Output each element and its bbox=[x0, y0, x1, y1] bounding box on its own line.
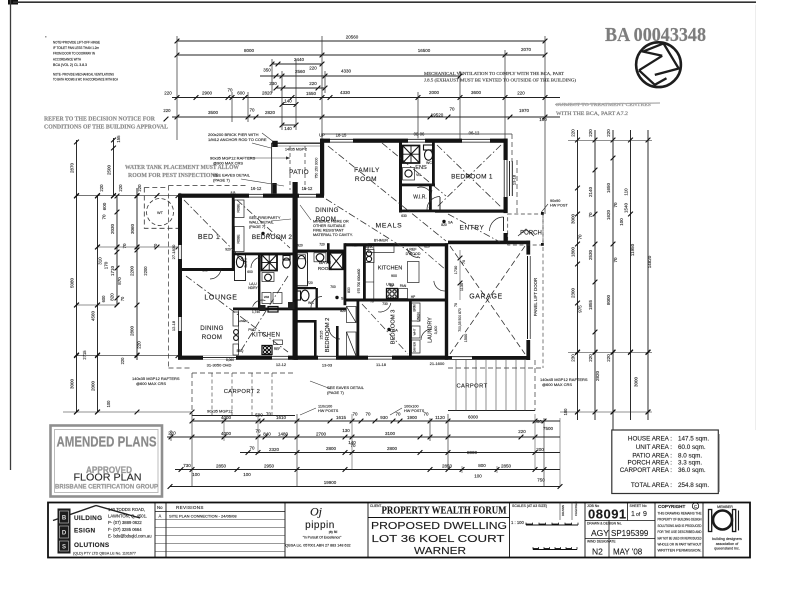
svg-text:2900: 2900 bbox=[202, 91, 213, 96]
dim top row 8000/16500/2070 bbox=[175, 47, 548, 57]
svg-text:1550: 1550 bbox=[306, 91, 317, 96]
svg-text:(QLD) PTY LTD QBSA Lic No.: (QLD) PTY LTD QBSA Lic No. 1101677 bbox=[73, 552, 136, 556]
svg-text:E- bds@bdsqld.com.au: E- bds@bdsqld.com.au bbox=[108, 533, 152, 538]
svg-text:1650: 1650 bbox=[606, 182, 611, 193]
svg-text:DINING: DINING bbox=[200, 325, 223, 332]
dim right 14820 bbox=[646, 130, 652, 420]
svg-text:(PAGE 7): (PAGE 7) bbox=[249, 224, 266, 229]
svg-text:920: 920 bbox=[225, 248, 231, 252]
wall wc east bbox=[316, 288, 318, 310]
scan artifact top edge line bbox=[13, 1, 756, 3]
svg-text:2820: 2820 bbox=[595, 370, 600, 381]
svg-text:of: of bbox=[636, 512, 641, 518]
wall bath top bbox=[294, 250, 346, 253]
unit robe boxes bbox=[235, 200, 245, 218]
svg-text:14820: 14820 bbox=[647, 255, 652, 268]
svg-text:SINK: SINK bbox=[365, 245, 374, 249]
carport right outline bbox=[448, 410, 535, 412]
svg-text:LOT 36 KOEL COURT: LOT 36 KOEL COURT bbox=[372, 534, 505, 545]
svg-text:3000: 3000 bbox=[571, 213, 576, 224]
note refer to decision notice bbox=[44, 117, 168, 131]
svg-text:MEALS: MEALS bbox=[375, 223, 402, 230]
svg-text:840: 840 bbox=[263, 432, 271, 437]
svg-text:2800: 2800 bbox=[326, 446, 337, 451]
svg-text:2200: 2200 bbox=[143, 266, 148, 276]
svg-text:08091: 08091 bbox=[588, 507, 627, 522]
svg-text:220: 220 bbox=[606, 129, 611, 137]
svg-text:SA: SA bbox=[341, 297, 346, 301]
dim left long 2870/5080 bbox=[70, 140, 79, 415]
svg-text:SA: SA bbox=[448, 221, 453, 225]
svg-text:PATIO: PATIO bbox=[289, 169, 309, 176]
svg-text:3100: 3100 bbox=[385, 431, 396, 436]
svg-text:ROOM: ROOM bbox=[355, 176, 377, 183]
svg-text:70: 70 bbox=[613, 202, 618, 208]
svg-text:254.8 sqm.: 254.8 sqm. bbox=[678, 482, 709, 489]
svg-text:CLIENT: CLIENT bbox=[370, 504, 381, 508]
svg-text:3600: 3600 bbox=[471, 90, 482, 95]
svg-text:BEDROOM 2: BEDROOM 2 bbox=[252, 234, 292, 241]
svg-text:230: 230 bbox=[269, 81, 277, 86]
note anchor leader top bbox=[262, 133, 273, 141]
dim top row 3500/2820/19520/1970 bbox=[172, 107, 560, 123]
svg-text:90x35 MGP12: 90x35 MGP12 bbox=[207, 409, 233, 414]
svg-text:1480: 1480 bbox=[278, 432, 289, 437]
svg-text:700,35 500 870: 700,35 500 870 bbox=[458, 308, 462, 332]
svg-text:@600 MAX CRS: @600 MAX CRS bbox=[136, 381, 166, 386]
window 15-12 unit top bbox=[299, 193, 316, 198]
svg-text:750 150 3000: 750 150 3000 bbox=[315, 158, 319, 179]
dim left h-line y247 bbox=[95, 243, 180, 276]
svg-text:4330: 4330 bbox=[341, 69, 352, 74]
scan speck bbox=[45, 36, 47, 38]
note water tank placement bbox=[125, 165, 239, 179]
svg-text:UP: UP bbox=[319, 133, 325, 138]
svg-text:8000: 8000 bbox=[244, 48, 255, 53]
svg-text:QBSA Lic. 057001 ABN 27 883 14: QBSA Lic. 057001 ABN 27 883 148 632 bbox=[285, 544, 350, 548]
fixture unit wc bbox=[283, 258, 291, 268]
wall unit left bbox=[178, 194, 182, 360]
svg-text:220: 220 bbox=[118, 184, 123, 192]
svg-text:(PAGE 7): (PAGE 7) bbox=[327, 390, 344, 395]
svg-text:3000: 3000 bbox=[634, 376, 639, 387]
svg-text:PWD: PWD bbox=[248, 328, 256, 332]
area summary table bbox=[612, 430, 720, 494]
door bedroom3 bbox=[378, 303, 391, 312]
svg-text:AGY: AGY bbox=[591, 528, 609, 538]
fixture laundry linen bbox=[412, 303, 421, 321]
svg-text:220: 220 bbox=[571, 129, 576, 137]
svg-text:C: C bbox=[694, 504, 697, 509]
svg-text:HW POSTS: HW POSTS bbox=[318, 409, 339, 413]
fixture unit vanity bbox=[265, 274, 272, 281]
scan artifact top-left black box bbox=[8, 0, 18, 5]
svg-text:WATER TANK PLACEMENT MUST ALLO: WATER TANK PLACEMENT MUST ALLOW bbox=[125, 165, 239, 171]
svg-text:THIS DRAWING REMAINS THE: THIS DRAWING REMAINS THE bbox=[658, 512, 702, 516]
svg-text:720: 720 bbox=[319, 243, 325, 247]
smoke alarm unit bbox=[261, 232, 264, 235]
svg-text:70: 70 bbox=[153, 243, 158, 248]
svg-text:WC: WC bbox=[426, 161, 432, 165]
svg-text:PROPERTY OF BUILDING DESIGN: PROPERTY OF BUILDING DESIGN bbox=[658, 518, 703, 522]
svg-text:CARPORT: CARPORT bbox=[456, 384, 487, 390]
svg-text:DRAWN & DESIGN No.: DRAWN & DESIGN No. bbox=[587, 522, 622, 526]
svg-text:ROBE: ROBE bbox=[237, 234, 241, 243]
svg-text:WC: WC bbox=[308, 301, 314, 305]
diag bed1 unit bbox=[184, 200, 246, 263]
svg-text:70: 70 bbox=[423, 412, 429, 417]
dim top row 140 upper bbox=[280, 99, 299, 107]
dim left 3060/2200/2800 bbox=[117, 188, 142, 360]
svg-text:12-18: 12-18 bbox=[171, 320, 176, 331]
svg-text:VB: VB bbox=[416, 173, 421, 177]
svg-text:ROBE: ROBE bbox=[237, 203, 241, 212]
fixture wir shelves bbox=[400, 190, 402, 208]
svg-text:FAMILY: FAMILY bbox=[354, 167, 380, 174]
svg-text:70: 70 bbox=[102, 214, 107, 220]
svg-text:4560: 4560 bbox=[91, 310, 96, 321]
svg-text:DRYER: DRYER bbox=[413, 341, 417, 352]
svg-text:LINEN: LINEN bbox=[417, 312, 421, 322]
svg-text:2715: 2715 bbox=[82, 350, 87, 360]
fixture unit shower bbox=[262, 255, 278, 271]
svg-text:pty ltd: pty ltd bbox=[329, 530, 338, 534]
fixture ens wc bbox=[424, 145, 434, 150]
svg-text:N2: N2 bbox=[592, 547, 603, 557]
svg-text:2070: 2070 bbox=[521, 47, 532, 52]
wall party (fire wall) bbox=[293, 196, 298, 360]
svg-text:930: 930 bbox=[380, 415, 388, 420]
svg-text:2800: 2800 bbox=[387, 446, 398, 451]
svg-text:TOTAL AREA :: TOTAL AREA : bbox=[631, 482, 672, 489]
svg-text:70: 70 bbox=[120, 296, 125, 301]
svg-text:16500: 16500 bbox=[418, 48, 431, 53]
wall wir east bbox=[429, 186, 432, 212]
svg-text:600: 600 bbox=[101, 295, 106, 303]
svg-text:1 : 100: 1 : 100 bbox=[511, 520, 524, 525]
svg-text:D: D bbox=[62, 531, 67, 537]
svg-text:220: 220 bbox=[137, 341, 142, 349]
svg-text:LAUNDRY: LAUNDRY bbox=[428, 317, 434, 343]
svg-text:AMENDED PLANS: AMENDED PLANS bbox=[57, 434, 157, 451]
wall laundry/garage west bbox=[445, 243, 448, 360]
dim right 1650/8000 bbox=[606, 129, 618, 430]
svg-text:70: 70 bbox=[352, 412, 358, 417]
svg-text:70: 70 bbox=[350, 443, 356, 448]
svg-text:BCA (VOL 2) CL 3.8.3: BCA (VOL 2) CL 3.8.3 bbox=[53, 62, 87, 67]
wall ens/bed1 divider bbox=[432, 142, 435, 186]
svg-text:REVISIONS: REVISIONS bbox=[176, 505, 204, 510]
diag entry porch bbox=[448, 214, 500, 242]
svg-text:14x35 MGP 2: 14x35 MGP 2 bbox=[285, 148, 307, 152]
dim bottom row 19900 bbox=[168, 480, 563, 489]
svg-text:OLUTIONS: OLUTIONS bbox=[74, 542, 110, 549]
dim top row 140 lower bbox=[280, 123, 299, 131]
svg-text:1,740: 1,740 bbox=[252, 310, 260, 314]
svg-text:9: 9 bbox=[643, 511, 647, 518]
svg-text:building designers: building designers bbox=[712, 537, 742, 541]
svg-text:70: 70 bbox=[462, 260, 466, 264]
svg-text:WHT: WHT bbox=[413, 328, 417, 335]
svg-text:ROOM: ROOM bbox=[202, 334, 222, 341]
carport right post lines bbox=[455, 360, 457, 411]
svg-text:8.0 sqm.: 8.0 sqm. bbox=[678, 453, 702, 460]
smoke alarm hall bbox=[335, 296, 338, 299]
dim bottom row4 bbox=[175, 463, 560, 483]
svg-text:HOUSE AREA :: HOUSE AREA : bbox=[628, 436, 672, 443]
svg-text:220: 220 bbox=[588, 354, 593, 362]
dim bottom vertical connectors bbox=[171, 414, 560, 487]
svg-text:220: 220 bbox=[309, 66, 317, 71]
svg-text:BATH: BATH bbox=[244, 257, 248, 267]
svg-text:5080: 5080 bbox=[70, 277, 75, 288]
dim left top h-line 220s bbox=[74, 108, 180, 198]
panel lift door lines bbox=[527, 256, 529, 339]
diag bedroom3 bbox=[362, 304, 408, 354]
fixture laundry tub wm bbox=[412, 326, 421, 338]
unit wet core dark stubs bbox=[260, 305, 266, 311]
svg-text:BRM: BRM bbox=[413, 304, 417, 311]
svg-text:1130: 1130 bbox=[460, 283, 464, 291]
svg-text:820: 820 bbox=[441, 223, 447, 227]
svg-text:PROPERTY WEALTH FORUM: PROPERTY WEALTH FORUM bbox=[382, 506, 507, 517]
svg-text:WARNER: WARNER bbox=[414, 546, 466, 557]
door bath main bbox=[311, 297, 322, 308]
svg-text:J.8.5 (EXHAUST MUST BE VENTED: J.8.5 (EXHAUST MUST BE VENTED TO OUTSIDE… bbox=[424, 78, 577, 83]
svg-text:70: 70 bbox=[370, 300, 374, 304]
title block frame bbox=[48, 503, 750, 558]
wall garage bottom bbox=[448, 356, 530, 360]
svg-text:MINERAL FIBRE OR: MINERAL FIBRE OR bbox=[313, 220, 349, 224]
member cell bdaq bbox=[709, 505, 743, 551]
svg-text:110x100: 110x100 bbox=[318, 405, 332, 409]
svg-text:BEDROOM 2: BEDROOM 2 bbox=[325, 318, 331, 353]
svg-text:13-03: 13-03 bbox=[322, 363, 333, 368]
svg-text:100: 100 bbox=[192, 472, 200, 477]
svg-text:600: 600 bbox=[102, 202, 107, 210]
svg-text:70: 70 bbox=[122, 243, 127, 249]
svg-text:1730: 1730 bbox=[454, 266, 458, 274]
svg-text:PAN: PAN bbox=[400, 284, 407, 288]
svg-text:170: 170 bbox=[104, 261, 109, 269]
svg-text:350: 350 bbox=[263, 68, 271, 73]
carport2 outline bbox=[192, 372, 295, 374]
svg-text:100: 100 bbox=[563, 408, 568, 416]
svg-text:70: 70 bbox=[588, 212, 593, 218]
svg-text:4330: 4330 bbox=[340, 90, 351, 95]
diag bedroom2 unit bbox=[237, 200, 290, 248]
svg-text:4000: 4000 bbox=[221, 431, 232, 436]
patio corner post bbox=[272, 183, 277, 194]
svg-text:100: 100 bbox=[539, 117, 547, 122]
svg-text:MATERIAL TO CAVITY.: MATERIAL TO CAVITY. bbox=[313, 233, 353, 237]
svg-text:800: 800 bbox=[478, 463, 486, 468]
patio rafter dashes bbox=[289, 146, 291, 190]
svg-text:130: 130 bbox=[342, 428, 350, 433]
diag lounge bbox=[186, 276, 288, 352]
svg-text:MEMBER: MEMBER bbox=[717, 505, 733, 509]
svg-text:LAWNTON, Q, 4501.: LAWNTON, Q, 4501. bbox=[108, 514, 147, 519]
window 06-12 family top bbox=[462, 138, 490, 143]
svg-text:MAY '08: MAY '08 bbox=[613, 548, 643, 557]
wall kitchen west v bbox=[363, 246, 366, 301]
window 16-12 unit top bbox=[249, 193, 263, 198]
dim right 11950 bbox=[619, 130, 639, 420]
fixture shower main bbox=[330, 253, 344, 269]
svg-text:975: 975 bbox=[578, 305, 583, 313]
svg-text:220: 220 bbox=[518, 429, 526, 434]
svg-text:2530: 2530 bbox=[588, 249, 593, 260]
svg-text:ESIGN: ESIGN bbox=[74, 528, 95, 535]
svg-text:1970: 1970 bbox=[519, 108, 530, 113]
logo building design solutions bbox=[53, 506, 140, 556]
svg-text:90x90: 90x90 bbox=[550, 199, 560, 203]
svg-text:1710: 1710 bbox=[110, 265, 115, 276]
svg-text:8000: 8000 bbox=[467, 450, 478, 455]
window 18-15 family top bbox=[330, 138, 353, 143]
svg-text:220: 220 bbox=[168, 431, 176, 436]
svg-text:BEDROOM 1: BEDROOM 1 bbox=[451, 174, 493, 181]
svg-text:2700: 2700 bbox=[316, 432, 327, 437]
dim left 4560 bbox=[91, 194, 100, 415]
svg-text:660: 660 bbox=[534, 419, 542, 424]
wall unit top bbox=[178, 194, 324, 198]
svg-text:2000: 2000 bbox=[91, 380, 96, 391]
svg-text:HW POSTS: HW POSTS bbox=[404, 409, 425, 413]
diag garage X bbox=[450, 246, 525, 354]
svg-text:140: 140 bbox=[284, 126, 292, 131]
svg-text:3500: 3500 bbox=[208, 110, 219, 115]
svg-text:ROOM: ROOM bbox=[318, 266, 332, 271]
svg-text:1620: 1620 bbox=[606, 209, 611, 220]
dim top row 2560/4330 bbox=[260, 66, 462, 79]
svg-text:UILDING: UILDING bbox=[74, 515, 102, 522]
door bedroom2 main bbox=[329, 328, 340, 339]
svg-text:CHECKED: CHECKED bbox=[574, 500, 578, 516]
svg-text:70: 70 bbox=[249, 446, 255, 451]
svg-text:20560: 20560 bbox=[346, 35, 359, 40]
svg-text:WHOLE OR IN PART WITHOUT: WHOLE OR IN PART WITHOUT bbox=[658, 543, 702, 547]
dim top row 2440 bbox=[270, 57, 325, 66]
diag bedroom1 bbox=[437, 145, 501, 207]
svg-text:2000: 2000 bbox=[429, 90, 440, 95]
svg-text:16-12: 16-12 bbox=[251, 186, 262, 191]
svg-text:720: 720 bbox=[307, 281, 313, 285]
svg-text:1120: 1120 bbox=[435, 415, 445, 420]
svg-text:KITCHEN: KITCHEN bbox=[252, 333, 280, 339]
svg-text:12-12: 12-12 bbox=[276, 362, 287, 367]
svg-text:FIRE RESISTANT: FIRE RESISTANT bbox=[313, 229, 344, 233]
svg-text:19520: 19520 bbox=[431, 113, 444, 118]
svg-text:147.5 sqm.: 147.5 sqm. bbox=[678, 436, 709, 443]
dim left h-line y412 bbox=[63, 410, 194, 415]
svg-text:100: 100 bbox=[474, 474, 482, 479]
svg-text:@600 MAX CRS: @600 MAX CRS bbox=[542, 382, 572, 387]
svg-text:21-1600: 21-1600 bbox=[430, 361, 445, 366]
svg-text:60.0 sqm.: 60.0 sqm. bbox=[678, 444, 706, 451]
porch dashed outline bbox=[508, 214, 543, 245]
svg-text:B: B bbox=[62, 516, 67, 522]
window 12-18 unit left bbox=[178, 317, 182, 331]
svg-text:SCALES (AT A3 SIZE): SCALES (AT A3 SIZE) bbox=[512, 504, 547, 508]
wall bath bottom h bbox=[294, 308, 346, 311]
svg-text:BBQ: BBQ bbox=[237, 349, 244, 353]
svg-text:220: 220 bbox=[606, 354, 611, 362]
svg-text:70: 70 bbox=[454, 303, 458, 307]
copyright cell bbox=[658, 503, 703, 553]
dim bottom row3 bbox=[240, 443, 560, 455]
dim top main row 2900/2820/1550/4330/2000/3600 bbox=[164, 88, 560, 100]
svg-text:CARPORT 2: CARPORT 2 bbox=[224, 389, 261, 395]
door garage-house bbox=[434, 281, 445, 291]
svg-text:600: 600 bbox=[202, 269, 208, 273]
svg-text:3000: 3000 bbox=[70, 378, 75, 389]
wall unit bed1/bed2 divider bbox=[232, 197, 235, 271]
fixture ens vanity bbox=[403, 168, 415, 181]
fixture unit kitchen hp bbox=[262, 346, 272, 355]
eaves dashed right of bed1 bbox=[516, 160, 518, 213]
svg-text:GARAGE: GARAGE bbox=[469, 294, 503, 301]
svg-text:LOUNGE: LOUNGE bbox=[204, 295, 237, 302]
wall house east upper bbox=[504, 139, 508, 214]
patio boundary left bbox=[271, 143, 273, 194]
fixture ens shower bbox=[403, 146, 420, 164]
dim right small ticks rows bbox=[560, 141, 652, 416]
svg-text:PATIO AREA :: PATIO AREA : bbox=[632, 453, 672, 460]
wall bed2m/bed3 divider bbox=[357, 301, 360, 360]
wall bath east v bbox=[344, 243, 347, 305]
svg-text:975 700 600x600: 975 700 600x600 bbox=[357, 268, 361, 293]
wall bed3/laundry divider bbox=[409, 301, 412, 360]
svg-text:310: 310 bbox=[98, 257, 103, 265]
svg-text:2950: 2950 bbox=[264, 464, 275, 469]
diag kitchen-meals small bbox=[418, 246, 446, 270]
wall house bottom bbox=[294, 356, 448, 360]
svg-text:100: 100 bbox=[619, 218, 624, 226]
svg-text:1900: 1900 bbox=[407, 415, 418, 420]
svg-text:220: 220 bbox=[99, 184, 104, 192]
svg-text:WIND DESIGNATE: WIND DESIGNATE bbox=[587, 540, 616, 544]
wall kitchen bottom h bbox=[346, 299, 447, 302]
svg-text:2820: 2820 bbox=[265, 110, 276, 115]
svg-text:920: 920 bbox=[297, 244, 303, 248]
wall family west bbox=[320, 139, 324, 196]
eaves dashed garage east bbox=[542, 214, 544, 368]
client cell property wealth forum bbox=[368, 504, 510, 557]
eaves line above family bbox=[322, 133, 512, 135]
svg-text:3.3 sqm.: 3.3 sqm. bbox=[678, 460, 702, 467]
eaves dashed unit bbox=[168, 186, 170, 369]
svg-text:2140: 2140 bbox=[588, 186, 593, 197]
svg-text:7500: 7500 bbox=[543, 426, 554, 431]
svg-text:2850: 2850 bbox=[501, 464, 512, 469]
svg-text:600: 600 bbox=[237, 91, 245, 96]
svg-text:BED 1: BED 1 bbox=[198, 234, 220, 241]
note lift-off hinge (top-left) bbox=[53, 40, 118, 82]
svg-text:8000: 8000 bbox=[606, 294, 611, 305]
svg-text:1: 1 bbox=[631, 511, 635, 518]
svg-text:1500: 1500 bbox=[464, 334, 468, 342]
svg-text:"In Pursuit Of Excellence": "In Pursuit Of Excellence" bbox=[303, 536, 342, 540]
svg-text:31-3050 OHD: 31-3050 OHD bbox=[207, 363, 232, 368]
job number cell bbox=[585, 503, 655, 558]
svg-text:70: 70 bbox=[249, 108, 255, 113]
svg-text:queensland inc.: queensland inc. bbox=[714, 547, 740, 551]
svg-text:2320: 2320 bbox=[269, 447, 280, 452]
door kitchen hall bbox=[407, 248, 418, 257]
svg-text:3,400: 3,400 bbox=[434, 326, 438, 335]
svg-text:FLOOR PLAN: FLOOR PLAN bbox=[74, 473, 142, 484]
